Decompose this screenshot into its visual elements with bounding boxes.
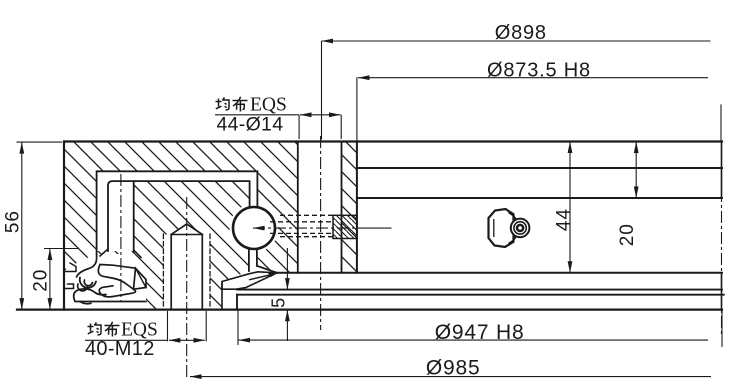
svg-text:Ø873.5 H8: Ø873.5 H8 <box>487 59 591 81</box>
svg-text:Ø985: Ø985 <box>426 356 481 379</box>
svg-text:5: 5 <box>269 298 289 308</box>
svg-text:44-Ø14: 44-Ø14 <box>217 114 284 136</box>
svg-text:Ø898: Ø898 <box>495 22 547 44</box>
svg-text:20: 20 <box>30 269 51 292</box>
svg-text:44: 44 <box>554 208 575 231</box>
svg-text:40-M12: 40-M12 <box>85 338 155 360</box>
svg-text:Ø947 H8: Ø947 H8 <box>435 321 525 344</box>
svg-text:20: 20 <box>617 223 638 246</box>
svg-text:EQS: EQS <box>250 95 287 116</box>
svg-text:56: 56 <box>3 210 24 233</box>
svg-text:EQS: EQS <box>121 320 158 341</box>
